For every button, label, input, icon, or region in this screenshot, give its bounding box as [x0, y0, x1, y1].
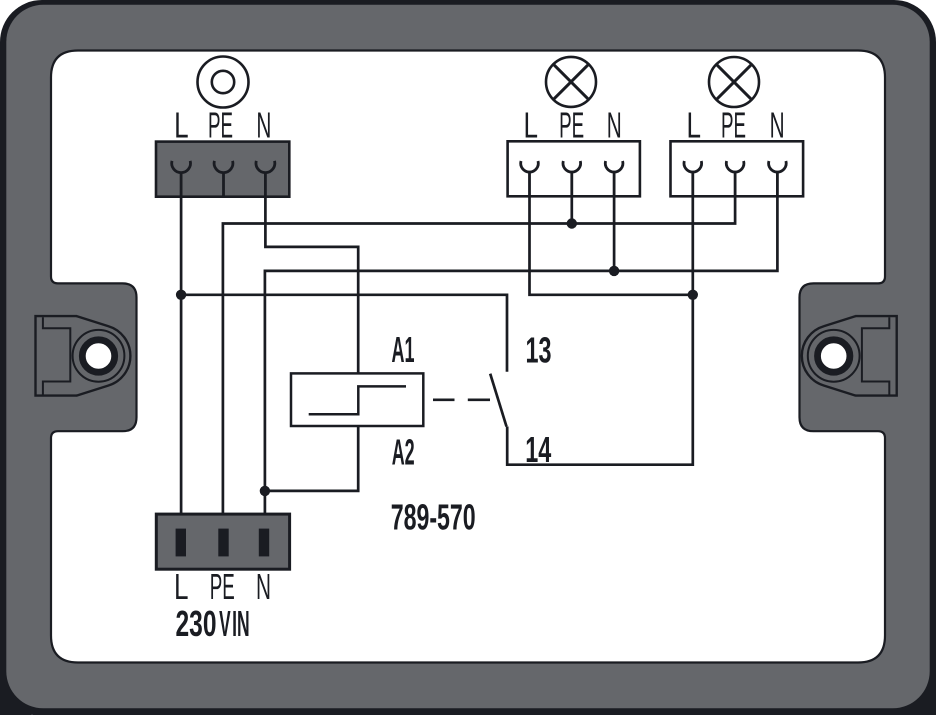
X2 terminal L clamp symbol: [521, 161, 539, 196]
enclosure frame bottom-left corner fill: [0, 662, 32, 715]
svg-text:N: N: [256, 104, 271, 145]
socket symbol (double circle) above X1: [198, 57, 249, 108]
wire: switch-loop return from top-left connector N to coil A1: [265, 172, 358, 373]
right mounting eyelet circles: [808, 330, 860, 382]
svg-text:L: L: [174, 104, 189, 145]
X1 terminal N clamp symbol: [256, 161, 275, 197]
svg-text:L: L: [524, 104, 539, 145]
left mounting eyelet circles: [73, 330, 125, 382]
X4 terminal L pin: [176, 529, 186, 557]
wire: PE bus from 230V IN PE to lamp connectors: [223, 195, 735, 535]
svg-text:L: L: [687, 104, 702, 145]
connector X2 (left lamp) white box: [508, 141, 640, 196]
node: junction dot N bus / left lamp N: [609, 266, 619, 276]
svg-text:N: N: [770, 104, 785, 145]
X3 terminal N clamp symbol: [769, 161, 787, 196]
X3 terminal L clamp symbol: [684, 161, 702, 196]
X4 terminal N pin: [259, 529, 269, 557]
svg-text:IN: IN: [232, 603, 250, 644]
svg-text:N: N: [607, 104, 622, 145]
svg-text:A1: A1: [392, 329, 415, 370]
X2 terminal N clamp symbol: [605, 161, 623, 196]
svg-text:PE: PE: [208, 104, 233, 145]
lamp symbol above X3: [709, 57, 759, 107]
wire: left lamp N drop: [613, 195, 616, 271]
svg-text:V: V: [219, 603, 231, 644]
right mounting tab bracket outline: [802, 316, 897, 396]
left mounting tab bracket outline: [36, 316, 131, 396]
X1 terminal PE clamp symbol: [214, 161, 233, 197]
node: junction dot L riser / 13 feed: [176, 290, 186, 300]
svg-text:13: 13: [526, 330, 552, 371]
switch contact blade 13-14: [490, 374, 506, 427]
wire: coil A2 to N riser: [265, 426, 358, 491]
wire: left lamp PE drop: [570, 195, 573, 224]
lamp symbol above X2: [546, 57, 596, 107]
connector X1 (top-left, switch loop) gray box: [156, 142, 289, 197]
enclosure frame bottom-right corner fill: [894, 654, 936, 715]
wire: left lamp L drop and link to right lamp L: [530, 195, 693, 295]
node: junction dot right lamp L / lamp link / 14 run: [688, 290, 698, 300]
svg-text:A2: A2: [392, 431, 415, 472]
wire: switch feed 13 horizontal run: [181, 295, 507, 372]
mechanical link dashes: [433, 398, 490, 401]
svg-text:L: L: [174, 566, 189, 607]
X3 terminal PE clamp symbol: [726, 161, 744, 196]
svg-text:PE: PE: [721, 104, 746, 145]
relay coil latching step symbol: [309, 386, 406, 414]
node: junction dot PE bus / left lamp PE: [567, 218, 577, 228]
svg-text:PE: PE: [559, 104, 584, 145]
X4 terminal PE pin: [218, 529, 228, 557]
svg-text:14: 14: [525, 429, 551, 470]
wire: N bus from 230V IN N to lamp connectors: [265, 195, 778, 535]
svg-text:N: N: [256, 566, 271, 607]
X1 terminal L clamp symbol: [172, 161, 191, 197]
connector X4 (230V IN) gray box: [156, 514, 289, 569]
svg-text:230: 230: [176, 603, 217, 644]
connector X3 (right lamp) white box: [671, 141, 804, 196]
wire: right lamp L riser down to switch contact 14 run: [507, 195, 693, 465]
node: junction dot A2 / N riser: [260, 486, 270, 496]
relay coil K1 box: [291, 373, 423, 426]
svg-text:PE: PE: [210, 566, 235, 607]
X2 terminal PE clamp symbol: [563, 161, 581, 196]
enclosure interior white area with mounting-tab notches: [51, 51, 885, 663]
svg-text:789-570: 789-570: [391, 497, 476, 538]
wire: L riser from top-left connector to 230V IN L: [180, 172, 183, 535]
